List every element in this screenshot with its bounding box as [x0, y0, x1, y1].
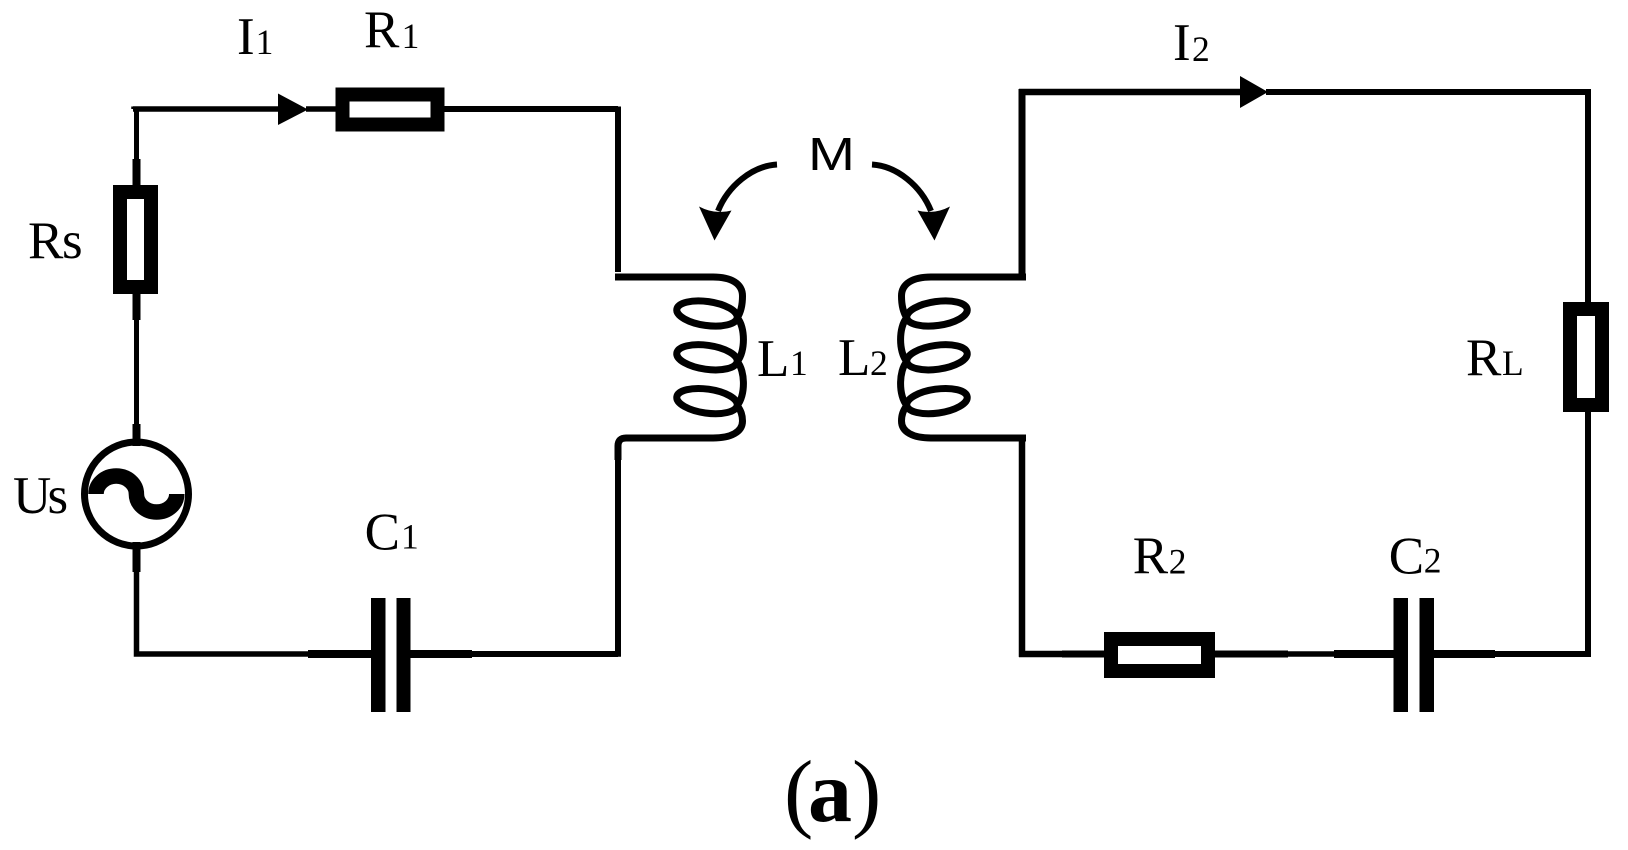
- svg-text:s: s: [62, 212, 83, 270]
- svg-text:): ): [852, 744, 881, 841]
- inductor L1 right arc 2-3: [737, 362, 743, 406]
- svg-text:C: C: [1389, 527, 1424, 585]
- svg-text:2: 2: [870, 343, 888, 383]
- resistor R2: [1111, 639, 1208, 671]
- inductor L2 left arc 1-2: [901, 318, 907, 362]
- wire: Rs to Us source: [134, 318, 139, 444]
- svg-text:2: 2: [1169, 541, 1187, 581]
- inductor L1 turn 1: [675, 297, 739, 329]
- inductor L1 top lead with hook: [615, 277, 743, 318]
- wire: thick lead above Us: [133, 424, 141, 446]
- svg-text:I: I: [237, 8, 255, 66]
- capacitor C1 left plate: [371, 598, 386, 712]
- wire: right circuit left vertical (top wire to L2 top lead): [1019, 89, 1026, 277]
- wire: thick lead below Rs: [133, 293, 141, 320]
- svg-text:C: C: [365, 504, 400, 562]
- wire: R2 to C2: [1214, 651, 1336, 657]
- svg-text:2: 2: [1192, 29, 1210, 69]
- svg-text:1: 1: [402, 16, 420, 56]
- wire: left vertical from top-left corner down to Rs: [134, 107, 139, 162]
- svg-text:2: 2: [1424, 541, 1442, 581]
- capacitor C1 right plate: [397, 598, 411, 712]
- wire: C1 to bottom-right corner of left loop, up to L1 bottom lead: [470, 444, 618, 657]
- wire: L2 bottom lead corner down to bottom wire: [1019, 435, 1106, 657]
- wire: R1 to right vertical, corner, down to L1 top lead: [444, 107, 618, 273]
- AC source Us sine wave: [96, 476, 177, 512]
- AC source Us circle: [85, 442, 189, 546]
- svg-text:L: L: [757, 330, 789, 388]
- wire: left circuit top, from top-left corner to arrow: [133, 107, 280, 110]
- svg-text:a: a: [808, 744, 852, 841]
- inductor L2 bottom lead with hook: [902, 405, 1027, 438]
- svg-text:1: 1: [401, 517, 419, 557]
- svg-text:R: R: [364, 1, 400, 59]
- wire: arrow to top-right corner, down to RL: [1266, 89, 1588, 303]
- mutual coupling arrow right (curved): [872, 165, 931, 212]
- wire: RL bottom to bottom-right corner: [1436, 411, 1591, 657]
- inductor L2 top lead with hook: [902, 277, 1027, 318]
- wire: Us bottom to bottom-left corner: [134, 544, 310, 657]
- mutual coupling arrowhead right: [918, 207, 951, 241]
- wire: thick lead left of R2: [1062, 651, 1107, 658]
- svg-text:M: M: [808, 128, 855, 180]
- svg-text:U: U: [13, 467, 51, 525]
- svg-text:R: R: [28, 212, 64, 270]
- capacitor C2 right plate: [1420, 598, 1435, 712]
- resistor RL: [1570, 309, 1602, 405]
- svg-text:1: 1: [790, 343, 808, 383]
- current arrow I1 on top wire: [278, 94, 308, 126]
- wire: right circuit top, left part to arrow: [1019, 89, 1242, 96]
- inductor L2 turn 2: [905, 341, 969, 373]
- inductor L1 turn 3: [675, 385, 739, 417]
- inductor L2 turn 1: [905, 297, 969, 329]
- resistor R1: [343, 95, 438, 125]
- svg-text:1: 1: [256, 22, 274, 62]
- svg-text:I: I: [1173, 14, 1191, 72]
- svg-text:R: R: [1133, 527, 1169, 585]
- wire: thick lead left of C1: [308, 650, 372, 658]
- svg-text:L: L: [838, 329, 870, 387]
- wire: thick lead right of R2: [1212, 651, 1288, 658]
- wire: thick lead below Us: [133, 542, 141, 572]
- wire: thick lead into Rs top: [133, 159, 141, 186]
- inductor L1 bottom lead with hook: [618, 405, 743, 460]
- inductor L1 turn 2: [675, 341, 739, 373]
- svg-text:L: L: [1502, 343, 1524, 383]
- svg-text:R: R: [1466, 329, 1502, 387]
- mutual coupling arrowhead left: [699, 207, 732, 241]
- wire: arrow to R1: [306, 106, 338, 112]
- svg-text:s: s: [48, 467, 69, 525]
- resistor Rs: [120, 192, 151, 287]
- inductor L2 left arc 2-3: [901, 362, 907, 406]
- mutual coupling arrow left (curved): [718, 165, 777, 212]
- capacitor C2 left plate: [1394, 598, 1409, 712]
- inductor L2 turn 3: [905, 385, 969, 417]
- inductor L1 right arc 1-2: [737, 318, 743, 362]
- wire: thick lead right of C2: [1434, 650, 1495, 658]
- wire: thick lead left of C2: [1334, 650, 1394, 658]
- wire: thick lead right of C1: [410, 650, 472, 658]
- current arrow I2 on top wire: [1240, 76, 1268, 108]
